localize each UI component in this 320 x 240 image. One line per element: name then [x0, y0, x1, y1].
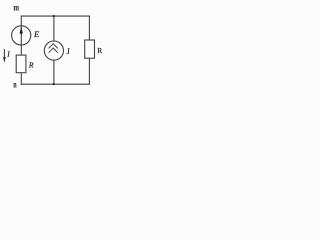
current source J chevron lower [49, 48, 58, 53]
wire top horizontal m to right branch [21, 15, 89, 17]
wire right branch above resistor [88, 16, 90, 40]
junction dot top node [53, 15, 55, 17]
svg-text:J: J [67, 47, 70, 56]
voltage source E circle [12, 26, 31, 45]
svg-text:R: R [97, 46, 102, 55]
wire left branch vertical through E source [20, 16, 22, 55]
resistor R2 right rect [85, 40, 95, 58]
current source J circle [44, 41, 63, 60]
current source J chevron upper [49, 44, 58, 49]
svg-text:n: n [13, 80, 16, 90]
wire left branch below resistor [20, 73, 22, 84]
wire right branch below resistor [88, 58, 90, 84]
voltage source E arrow [20, 27, 23, 34]
svg-text:E: E [33, 29, 40, 39]
wire middle branch below J [53, 60, 55, 84]
svg-text:m: m [13, 4, 19, 14]
svg-text:I: I [6, 50, 10, 59]
resistor R1 left rect [16, 55, 26, 73]
svg-text:R: R [28, 61, 34, 70]
wire bottom horizontal [21, 83, 89, 85]
junction dot bottom node [53, 83, 55, 85]
current arrow I [3, 49, 6, 63]
wire middle branch above J [53, 16, 55, 41]
